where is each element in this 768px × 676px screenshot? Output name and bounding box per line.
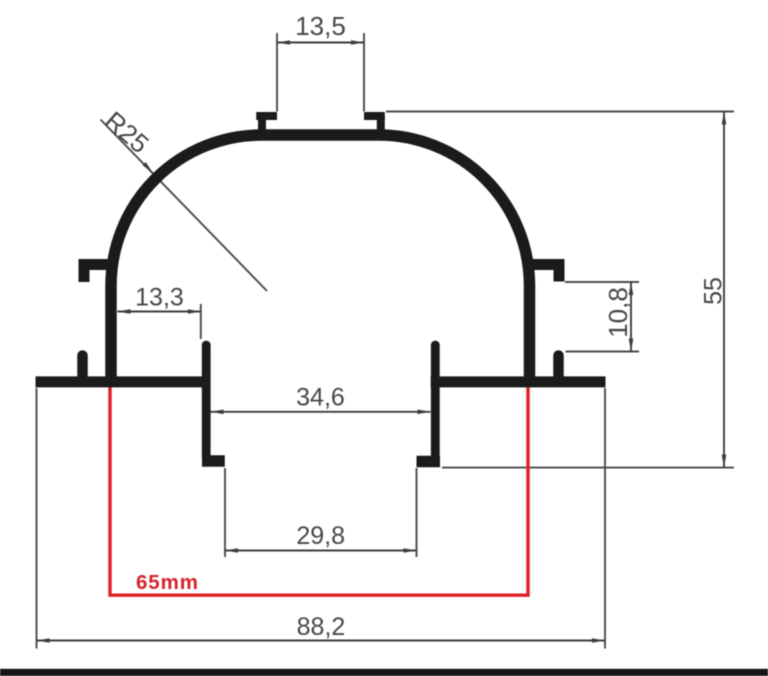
profile side hook left xyxy=(84,265,114,283)
dimension line 34,6 xyxy=(211,411,431,413)
extension line 13,3 right xyxy=(200,304,202,339)
profile side hook right xyxy=(526,265,559,282)
extension line 55 bottom xyxy=(442,467,734,469)
profile bottom flange left segment xyxy=(36,376,211,387)
svg-text:55: 55 xyxy=(700,277,728,305)
profile top tab left xyxy=(256,112,277,120)
svg-text:29,8: 29,8 xyxy=(296,522,345,550)
extension line 55 top xyxy=(386,111,734,113)
extension line 29,8 left xyxy=(224,468,226,557)
profile top tab right xyxy=(364,112,385,120)
svg-text:88,2: 88,2 xyxy=(297,613,346,641)
svg-text:65mm: 65mm xyxy=(136,571,199,594)
svg-text:10,8: 10,8 xyxy=(603,287,633,338)
bottom black bar xyxy=(0,669,768,676)
profile bottom flange right segment xyxy=(431,376,606,387)
dimension line 10,8 xyxy=(630,282,632,352)
extension line 13,5 right xyxy=(363,33,365,112)
radius arrow R25 xyxy=(143,162,154,173)
profile inner foot right xyxy=(417,456,441,468)
red 65mm dimension box xyxy=(110,377,528,595)
profile inner wall right xyxy=(431,345,440,459)
svg-text:13,3: 13,3 xyxy=(135,284,184,312)
profile flange pin left xyxy=(77,356,88,379)
dimension line 13,3 xyxy=(118,311,201,313)
dimension line 29,8 xyxy=(225,550,417,552)
profile dome outline xyxy=(111,135,530,380)
extension line 88,2 right xyxy=(604,388,606,649)
extension line 10,8 top xyxy=(565,281,639,283)
profile flange pin right xyxy=(553,356,564,379)
dimension line 88,2 xyxy=(37,640,606,642)
extension line 88,2 left xyxy=(36,388,38,649)
svg-text:34,6: 34,6 xyxy=(296,384,345,412)
svg-text:13,5: 13,5 xyxy=(295,11,346,41)
profile inner foot left xyxy=(202,455,225,467)
extension line 29,8 right xyxy=(416,468,418,557)
profile inner wall left xyxy=(202,345,211,458)
radius leader R25 xyxy=(101,120,268,292)
dimension line 13,5 xyxy=(277,42,364,44)
extension line 13,5 left xyxy=(276,33,278,112)
extension line 10,8 bottom xyxy=(566,351,640,353)
dimension line 55 xyxy=(723,112,725,468)
